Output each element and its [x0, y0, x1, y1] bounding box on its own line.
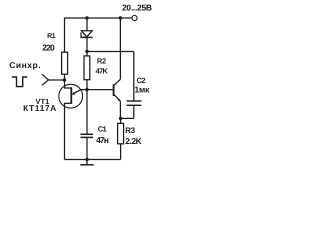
svg-text:1мк: 1мк — [135, 85, 151, 95]
svg-text:R3: R3 — [125, 126, 135, 135]
svg-text:47н: 47н — [96, 135, 109, 145]
svg-text:R1: R1 — [47, 33, 56, 40]
svg-text:КТ117А: КТ117А — [23, 103, 57, 113]
svg-text:47K: 47K — [96, 66, 109, 75]
svg-text:Синхр.: Синхр. — [9, 60, 41, 70]
svg-text:C1: C1 — [98, 124, 107, 133]
svg-text:2.2K: 2.2K — [125, 136, 142, 146]
svg-text:220: 220 — [42, 43, 55, 53]
svg-text:R2: R2 — [97, 57, 106, 66]
svg-text:20...25В: 20...25В — [122, 3, 152, 13]
